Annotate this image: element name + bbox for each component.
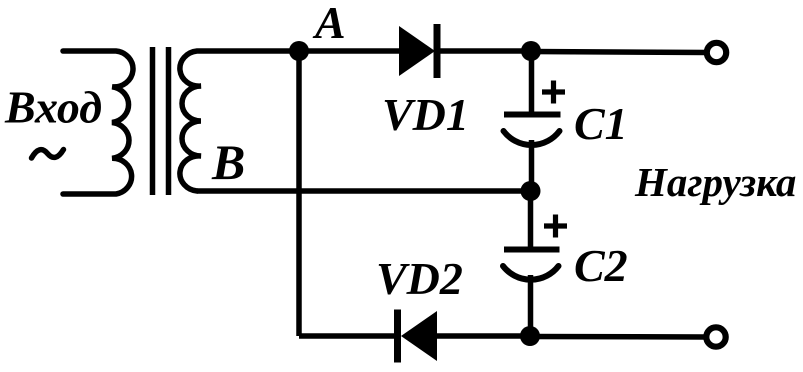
svg-text:Нагрузка: Нагрузка (634, 159, 796, 205)
transformer T1 secondary winding (180, 51, 299, 191)
transformer T1 primary winding (63, 51, 133, 194)
diode VD2 cathode bar (394, 310, 401, 363)
diode VD1 triangle (399, 26, 435, 76)
wire bottom rail left (A line to VD2 cathode) (299, 333, 396, 339)
wire node A down-line (296, 51, 302, 336)
svg-text:C1: C1 (574, 98, 628, 149)
wire node A to VD1 anode (299, 48, 400, 54)
AC sine symbol ~ (32, 150, 64, 159)
node C1-top junction dot (521, 41, 541, 61)
wire C2 lead bottom (528, 275, 534, 336)
node capacitor midpoint junction dot (521, 181, 541, 201)
node A junction dot (289, 41, 309, 61)
svg-text:C2: C2 (574, 240, 628, 291)
transformer T1 core line left (150, 47, 156, 195)
capacitor C2 positive plate (504, 247, 560, 253)
diode VD2 triangle (401, 311, 437, 361)
diode VD1 cathode bar (434, 24, 441, 78)
wire C1 top node to output terminal plus (531, 52, 707, 53)
node C2-bottom junction dot (520, 326, 540, 346)
wire C1 lead top (529, 51, 535, 113)
capacitor C1 polarity plus sign (542, 81, 565, 104)
output terminal plus (open circle) (707, 43, 726, 62)
capacitor C2 curved negative plate (503, 266, 559, 280)
capacitor C1 curved negative plate (504, 131, 560, 145)
wire C2 bottom node to output terminal minus (530, 334, 706, 340)
svg-text:VD2: VD2 (376, 253, 463, 304)
wire node B rail (secondary bottom to capacitor midpoint) (197, 188, 530, 194)
svg-text:VD1: VD1 (382, 89, 469, 140)
transformer T1 core line right (166, 47, 172, 195)
wire VD1 cathode to C1 top node (440, 48, 531, 54)
svg-text:Вход: Вход (4, 82, 102, 133)
wire C2 lead top (528, 191, 534, 249)
wire C1 lead bottom (529, 140, 535, 191)
wire VD2 anode to C2 bottom node (437, 333, 530, 339)
output terminal minus (open circle) (706, 327, 725, 346)
svg-text:A: A (312, 0, 346, 48)
capacitor C1 positive plate (504, 112, 561, 118)
capacitor C2 polarity plus sign (544, 215, 567, 238)
svg-text:B: B (211, 134, 245, 190)
